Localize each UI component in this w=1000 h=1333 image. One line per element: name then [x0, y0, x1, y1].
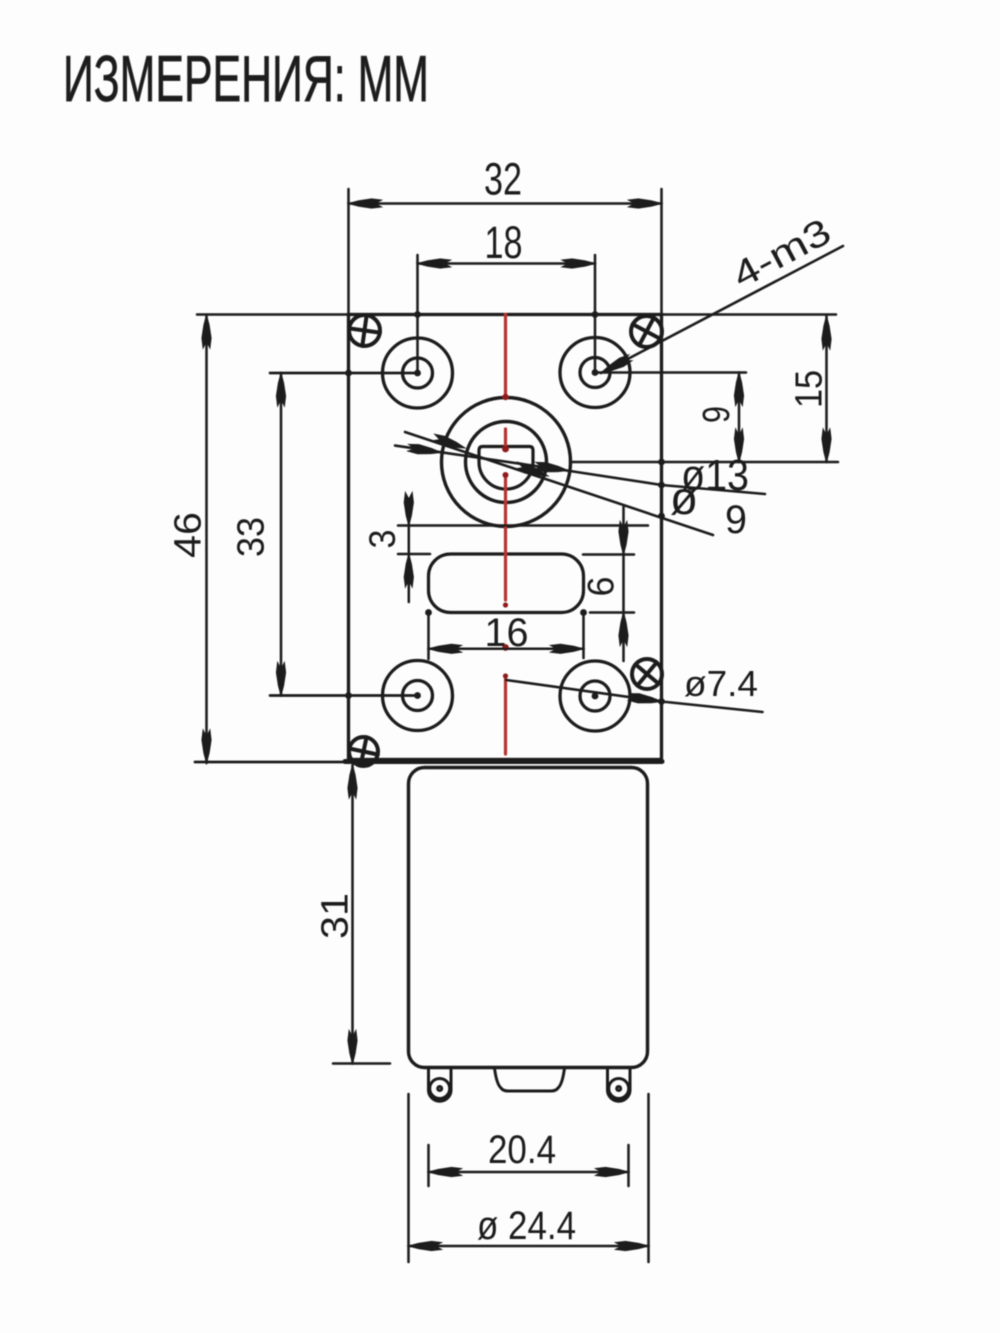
- dimension 3: [398, 499, 430, 602]
- dimension 9 (right): [595, 373, 746, 463]
- svg-text:ø 24.4: ø 24.4: [477, 1204, 576, 1248]
- shaft tangent line: [398, 524, 648, 527]
- dimension 46: [197, 315, 349, 764]
- leader ø9: [405, 432, 713, 535]
- output shaft boss circle (ø13): [442, 398, 571, 527]
- dimension 20.4: [429, 1145, 629, 1186]
- shaft circle (ø9): [466, 422, 547, 503]
- dimension 31: [333, 765, 390, 1064]
- svg-text:33: 33: [231, 517, 273, 557]
- red centerline: [504, 315, 507, 755]
- mounting hole top-left: [383, 338, 453, 408]
- mounting hole bottom-right: [560, 661, 630, 731]
- svg-text:46: 46: [168, 512, 210, 558]
- motor bottom connector: [495, 1068, 565, 1091]
- red centerline dots: [502, 394, 509, 679]
- dimension 32: [349, 189, 662, 314]
- svg-text:6: 6: [581, 577, 622, 597]
- gearbox plate outline: [349, 315, 662, 760]
- svg-text:9: 9: [725, 498, 747, 542]
- mounting hole bottom-left: [383, 661, 453, 731]
- D-shaped shaft bore: [479, 447, 533, 490]
- motor terminal right: [608, 1068, 631, 1101]
- motor terminal left: [429, 1068, 452, 1101]
- svg-text:3: 3: [362, 530, 403, 549]
- svg-text:18: 18: [485, 217, 523, 268]
- junction dots: [345, 311, 665, 705]
- dimension 16: [429, 613, 584, 660]
- leader ø13: [395, 446, 765, 495]
- svg-text:16: 16: [485, 611, 529, 655]
- dimension 15 (right): [570, 315, 838, 463]
- screw symbol top-left: [347, 313, 382, 348]
- mounting hole top-right: [560, 338, 630, 408]
- svg-text:31: 31: [315, 893, 357, 939]
- dimension 18: [418, 255, 596, 373]
- screw symbol bottom-left: [346, 734, 380, 768]
- svg-text:4-m3: 4-m3: [726, 211, 838, 296]
- svg-text:ø: ø: [670, 472, 698, 524]
- svg-text:20.4: 20.4: [488, 1128, 556, 1172]
- svg-text:9: 9: [696, 406, 738, 423]
- plate bottom thick edge: [195, 761, 349, 764]
- svg-text:15: 15: [789, 370, 831, 408]
- hole centre lines: [270, 373, 418, 696]
- dimension 33: [270, 373, 418, 696]
- worm slot (obround): [429, 554, 584, 613]
- leader ø7.4: [506, 680, 763, 712]
- leader 4-m3: [601, 246, 843, 373]
- svg-text:32: 32: [484, 154, 522, 205]
- motor body: [409, 768, 648, 1068]
- screw symbol right-mid: [626, 653, 668, 695]
- dimension ø24.4: [409, 1094, 649, 1262]
- screw symbol top-right: [626, 311, 668, 353]
- svg-text:ИЗМЕРЕНИЯ: ММ: ИЗМЕРЕНИЯ: ММ: [63, 42, 429, 115]
- dimension 6: [583, 507, 634, 661]
- svg-text:ø7.4: ø7.4: [684, 663, 758, 704]
